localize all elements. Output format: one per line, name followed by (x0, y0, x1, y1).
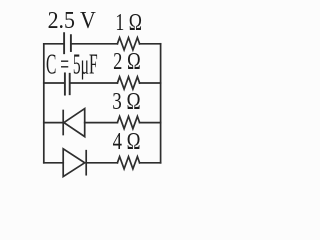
wire right rail (160, 44, 162, 163)
wire rung1 left segment (44, 43, 64, 45)
wire rung1 right segment (140, 43, 161, 45)
resistor R1 1 ohm (117, 38, 139, 50)
wire rung3 left segment (44, 122, 63, 124)
wire rung4 right segment (140, 162, 161, 164)
wire rung2 left segment (44, 82, 64, 84)
wire rung4 left segment (44, 162, 63, 164)
svg-text:C = 5μF: C = 5μF (46, 49, 98, 81)
resistor R2 2 ohm (117, 77, 139, 89)
resistor R3 3 ohm (117, 116, 139, 128)
wire left rail (43, 44, 45, 163)
wire rung3 right segment (140, 122, 161, 124)
diode D2 (points right) (63, 149, 86, 177)
svg-text:2.5 V: 2.5 V (48, 7, 97, 34)
wire rung2 mid segment (71, 82, 118, 84)
diode D1 (points left) (63, 109, 84, 137)
wire rung4 mid segment (86, 162, 117, 164)
svg-text:3 Ω: 3 Ω (112, 89, 140, 115)
wire rung3 mid segment (85, 122, 118, 124)
resistor R4 4 ohm (117, 157, 139, 169)
wire rung2 right segment (140, 82, 161, 84)
wire rung1 mid segment (72, 43, 118, 45)
capacitor C1 (2.5 V) (64, 33, 71, 53)
svg-text:4 Ω: 4 Ω (113, 129, 141, 155)
svg-text:1 Ω: 1 Ω (115, 10, 142, 36)
svg-text:2 Ω: 2 Ω (113, 49, 141, 75)
capacitor C2 (5 uF) (65, 73, 70, 94)
